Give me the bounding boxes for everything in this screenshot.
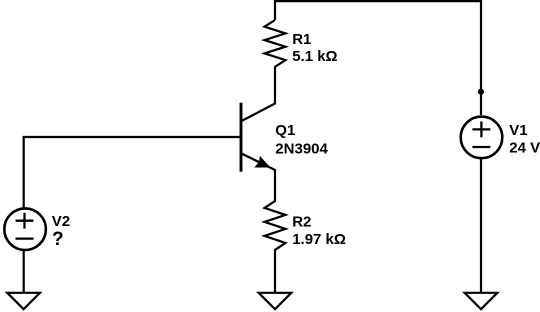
svg-text:V2: V2 xyxy=(52,213,70,230)
svg-text:2N3904: 2N3904 xyxy=(275,140,328,157)
svg-text:24 V: 24 V xyxy=(509,139,540,156)
svg-text:1.97 kΩ: 1.97 kΩ xyxy=(292,231,346,248)
svg-text:V1: V1 xyxy=(509,122,527,139)
svg-text:R2: R2 xyxy=(292,213,311,230)
svg-text:R1: R1 xyxy=(292,31,311,48)
svg-text:?: ? xyxy=(52,229,64,250)
svg-text:5.1 kΩ: 5.1 kΩ xyxy=(292,48,337,65)
svg-text:Q1: Q1 xyxy=(275,122,295,139)
